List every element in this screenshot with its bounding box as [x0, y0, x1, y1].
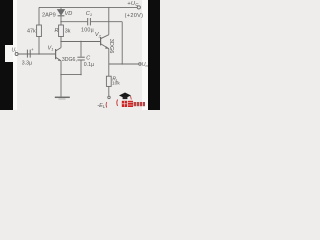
- terminal circle Uc: [137, 6, 140, 9]
- watermark red bracket: [116, 100, 119, 106]
- wire: emitter to C junction: [61, 74, 81, 76]
- wire: C1 right segment to bootstrap: [91, 21, 122, 23]
- black scan band right: [148, 0, 160, 110]
- svg-text:3DG6: 3DG6: [108, 39, 114, 54]
- svg-text:0.1µ: 0.1µ: [84, 62, 94, 68]
- watermark small red text: [134, 102, 136, 106]
- svg-text:Ui: Ui: [12, 48, 17, 54]
- wire: diode to R: [60, 16, 62, 25]
- svg-text:+: +: [31, 47, 34, 52]
- watermark red characters: [122, 101, 127, 107]
- resistor 47k box: [37, 25, 42, 37]
- svg-text:VD: VD: [65, 11, 73, 17]
- resistor RL box: [106, 76, 111, 86]
- transistor V2 emitter: [101, 44, 109, 49]
- wire: 47k branch top: [38, 7, 40, 25]
- transistor V1 base bar: [55, 49, 57, 59]
- wire: bootstrap vertical: [121, 22, 123, 64]
- capacitor C1 plates: [87, 18, 89, 25]
- svg-text:C1: C1: [86, 11, 92, 17]
- transistor V2 base bar: [100, 37, 102, 45]
- wire: C bottom to emitter line: [80, 60, 82, 74]
- transistor V1 emitter: [56, 57, 61, 61]
- transistor V2 collector: [101, 35, 109, 39]
- diode VD cathode bar: [58, 15, 65, 17]
- svg-text:V2: V2: [95, 32, 102, 38]
- wire: R bottom to collector node: [60, 37, 62, 48]
- wire: input base wire: [18, 53, 55, 55]
- svg-text:47k: 47k: [27, 29, 36, 35]
- capacitor C plates: [77, 56, 84, 58]
- wire: down to ground: [60, 75, 62, 97]
- svg-text:V1: V1: [48, 46, 54, 52]
- paper background: [0, 0, 160, 110]
- white strip left edge: [12, 0, 17, 110]
- wire: V1 emitter down: [60, 61, 62, 75]
- wire: node A to V2 base: [61, 41, 100, 43]
- ground bar main: [55, 96, 70, 98]
- svg-text:100µ: 100µ: [81, 28, 94, 34]
- ground bar faint: [59, 98, 66, 100]
- svg-text:3.3µ: 3.3µ: [22, 61, 32, 67]
- svg-text:C: C: [86, 56, 90, 62]
- watermark graduation cap: [106, 93, 145, 108]
- diode VD triangle: [58, 10, 65, 15]
- svg-text:-EL: -EL: [97, 103, 106, 109]
- transistor V1 emitter arrow: [58, 59, 61, 61]
- transistor V1 collector: [56, 48, 61, 51]
- svg-text:(+20V): (+20V): [125, 13, 144, 19]
- wire: RL bottom to terminal: [108, 86, 110, 96]
- white strip right edge: [142, 0, 149, 110]
- svg-text:3k: 3k: [65, 29, 71, 35]
- resistor R box: [59, 25, 64, 37]
- wire: RL top: [108, 64, 110, 76]
- terminal circle Ui: [15, 53, 18, 56]
- terminal circle EL: [108, 96, 111, 99]
- wire: top supply rail: [39, 6, 137, 8]
- capacitor C2 input plates: [26, 50, 28, 58]
- terminal circle Uo: [139, 63, 142, 66]
- transistor V2 emitter arrow: [105, 46, 109, 49]
- svg-text:10k: 10k: [112, 80, 120, 86]
- wire: output line: [109, 63, 139, 65]
- svg-text:+UC: +UC: [127, 1, 139, 7]
- wire: 47k bottom to base node: [38, 37, 40, 55]
- wire: C1 horizontal left segment: [61, 21, 87, 23]
- svg-text:R: R: [55, 28, 59, 34]
- wire: diode branch stub from rail: [60, 7, 62, 9]
- watermark red bracket 2: [105, 102, 108, 108]
- black scan band left: [0, 0, 13, 110]
- svg-text:Uo: Uo: [142, 62, 149, 68]
- node junction dots: [60, 21, 61, 22]
- svg-text:3DG6,: 3DG6,: [62, 57, 77, 63]
- white notch left band: [5, 45, 13, 62]
- wire: V2 emitter down to output: [108, 49, 110, 64]
- wire: V2 collector up to rail: [108, 7, 110, 34]
- svg-text:2AP9: 2AP9: [42, 12, 56, 18]
- wire: C 0.1u top from node A line: [80, 42, 82, 57]
